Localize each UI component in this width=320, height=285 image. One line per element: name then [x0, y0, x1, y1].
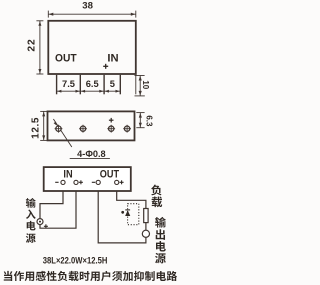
svg-text:5: 5 — [110, 79, 115, 89]
svg-text:6.3: 6.3 — [144, 115, 153, 127]
svg-text:IN: IN — [63, 168, 72, 180]
svg-text:38L×22.0W×12.5H: 38L×22.0W×12.5H — [43, 255, 108, 265]
svg-text:22: 22 — [27, 38, 38, 51]
svg-text:OUT: OUT — [100, 168, 120, 180]
svg-text:IN: IN — [107, 53, 118, 65]
svg-text:10: 10 — [141, 80, 150, 89]
svg-text:12.5: 12.5 — [30, 117, 41, 139]
svg-text:6.5: 6.5 — [86, 79, 99, 89]
svg-text:OUT: OUT — [55, 53, 77, 65]
svg-text:38: 38 — [82, 1, 93, 12]
svg-text:4-Φ0.8: 4-Φ0.8 — [77, 149, 105, 159]
svg-text:7.5: 7.5 — [62, 79, 75, 89]
